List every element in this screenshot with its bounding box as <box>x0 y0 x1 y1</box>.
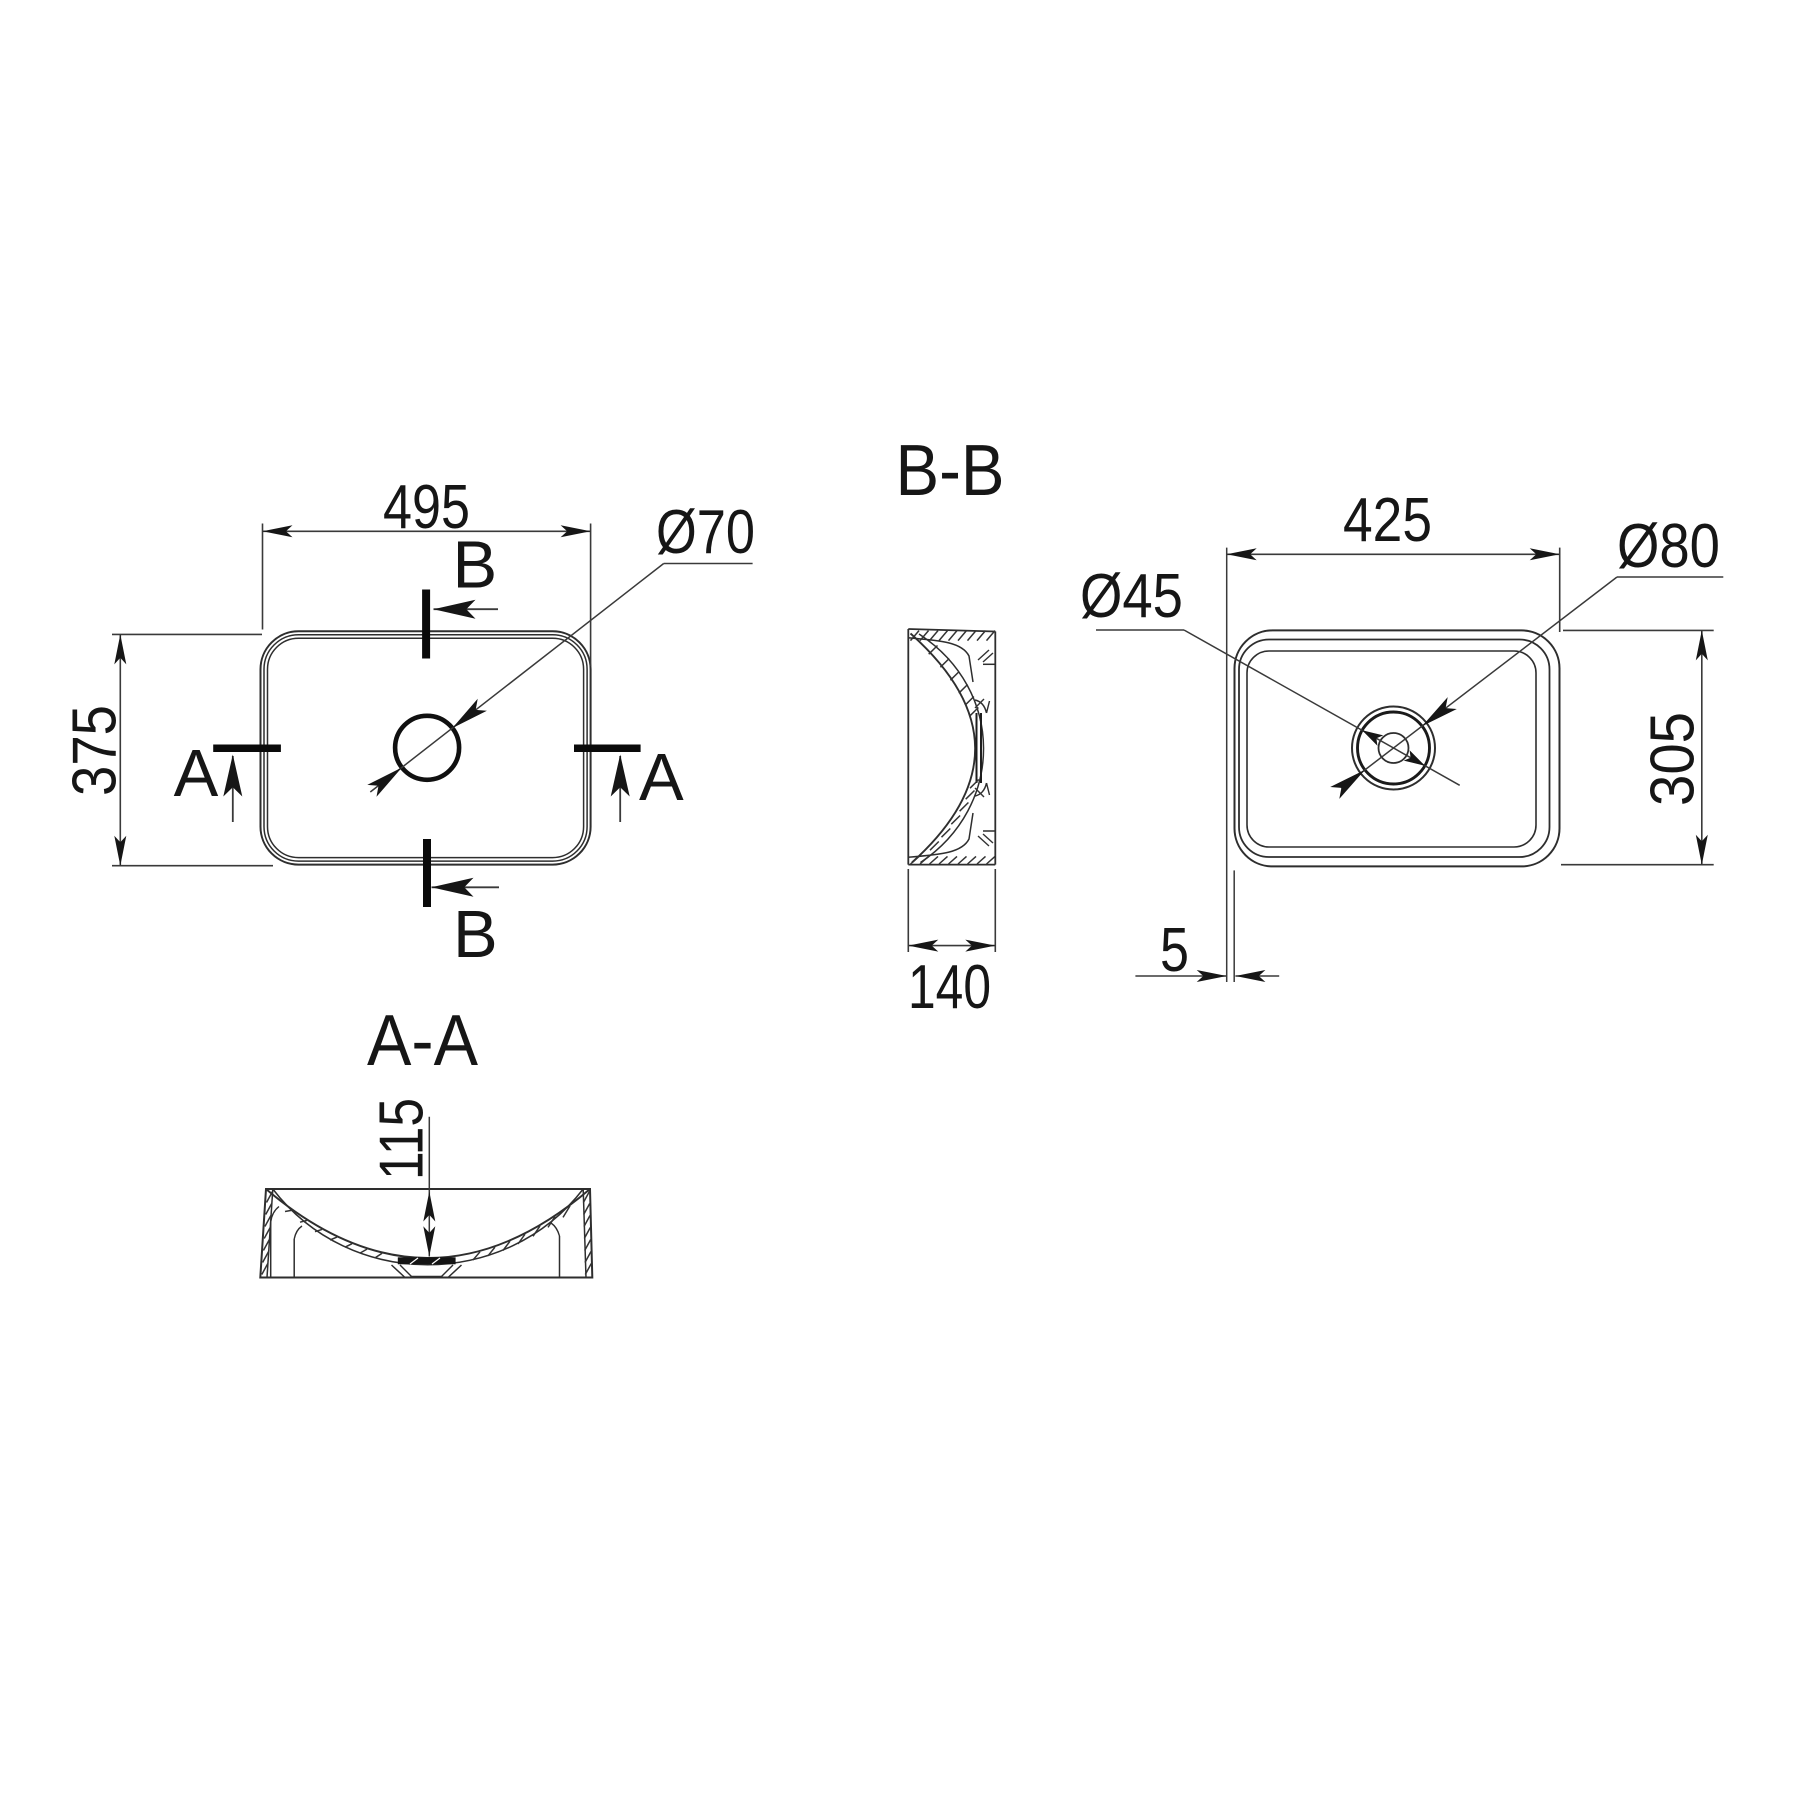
140 dim right extension line <box>994 869 996 952</box>
svg-text:140: 140 <box>908 953 991 1022</box>
5 dim right arrowhead (pointing left) <box>1235 970 1265 982</box>
section B bottom arrowhead <box>432 878 474 897</box>
section B-B drain flange line (lower) <box>983 830 995 832</box>
section A-A left wall inner line <box>267 1189 273 1278</box>
425 dimension line <box>1227 553 1560 555</box>
305 dim bottom arrowhead <box>1696 835 1708 865</box>
section A-A right foot line <box>559 1236 561 1278</box>
section B-B drain flange line (upper) <box>983 663 995 665</box>
svg-text:Ø70: Ø70 <box>656 498 755 567</box>
Ø70 arrowhead lower-left (on circle) <box>367 768 402 797</box>
right view basin inner edge contour <box>1247 651 1536 847</box>
section B-B left outline edge <box>907 629 909 865</box>
section A left arrow shaft <box>232 756 234 822</box>
Ø45 arrowhead upper-left <box>1362 730 1383 746</box>
section B-B drain funnel curve upper <box>975 700 987 713</box>
section A-A hatching: right wall band <box>583 1192 589 1203</box>
section A-A left foot shoulder 1 <box>271 1207 279 1223</box>
495 dim left arrowhead <box>263 525 293 537</box>
section A-A hatching: bowl wall <box>285 1210 292 1211</box>
section A cut line (left) <box>213 745 281 753</box>
section A-A drain plate (dark) <box>398 1257 456 1264</box>
375 dim bottom arrowhead <box>114 836 126 866</box>
5 dim line right part <box>1235 975 1279 977</box>
115 dim upper arrowhead <box>423 1192 435 1222</box>
right view drain small circle Ø45 <box>1379 733 1409 763</box>
svg-text:375: 375 <box>61 705 130 796</box>
section B-B bowl interior curve <box>911 634 976 863</box>
right view outer rim contour <box>1235 630 1560 866</box>
305 dimension line <box>1701 630 1703 864</box>
svg-text:B: B <box>453 528 498 603</box>
right view drain outer circle <box>1352 707 1435 790</box>
Ø80 leader/diameter line <box>1341 577 1617 788</box>
section B-B hatching: bowl wall <box>929 646 938 655</box>
Ø45 leader/diameter line <box>1184 630 1460 785</box>
basin outer rim contour (top view) <box>260 631 590 864</box>
section A-A body outline <box>260 1189 592 1278</box>
section B-B top edge <box>908 629 995 632</box>
425 dim right extension line <box>1559 548 1561 632</box>
right view rim middle contour <box>1239 640 1550 858</box>
5 dim right extension line <box>1233 870 1235 982</box>
section B-B rim inner line (bottom) <box>908 813 973 857</box>
svg-text:A: A <box>639 740 684 815</box>
drain plate slit 1 <box>410 1258 418 1264</box>
right view drain circle Ø80 <box>1358 712 1430 784</box>
140 dim left extension line <box>907 869 909 952</box>
section A-A right wall inner line <box>583 1189 586 1278</box>
375 dimension line <box>119 634 121 865</box>
section A-A drain funnel left outer <box>392 1265 406 1278</box>
Ø80 leader shoulder line <box>1617 576 1723 578</box>
425 dim right arrowhead <box>1530 548 1560 560</box>
svg-text:A: A <box>174 736 219 811</box>
section A-A drain funnel bottom line <box>412 1276 442 1278</box>
section B-B drain wall line lower <box>987 783 990 795</box>
basin rim inner contour (top view) <box>267 638 583 857</box>
svg-text:305: 305 <box>1639 712 1708 806</box>
basin rim middle contour (top view) <box>264 635 587 861</box>
425 dim left arrowhead <box>1227 548 1257 560</box>
Ø80 arrowhead lower-left <box>1330 770 1365 799</box>
section B-B hatching: near drain <box>978 650 989 660</box>
section A-A drain funnel left inner <box>400 1265 412 1277</box>
svg-text:Ø45: Ø45 <box>1080 562 1183 631</box>
section B-B right outline edge <box>994 632 996 865</box>
section B-B drain hole line 2 <box>980 713 982 783</box>
section A right arrow shaft <box>619 756 621 822</box>
svg-text:Ø80: Ø80 <box>1617 512 1720 581</box>
svg-text:5: 5 <box>1160 916 1189 985</box>
305 dim top extension line <box>1563 629 1714 631</box>
140 dimension line <box>908 945 995 947</box>
section B cut line (top) <box>422 590 430 659</box>
425/5 dim shared left extension line <box>1226 548 1228 982</box>
section B bottom arrow shaft <box>432 886 500 888</box>
115 dim extension/dimension line <box>428 1117 430 1257</box>
495 dim left extension line <box>262 524 264 630</box>
svg-text:115: 115 <box>368 1098 437 1180</box>
section A-A left foot line 2 <box>293 1239 295 1278</box>
Ø70 leader/diameter line through drain circle <box>370 564 663 793</box>
section B-B hatching: rim top band <box>911 631 920 641</box>
5 dim left arrowhead (pointing right) <box>1197 970 1227 982</box>
140 dim right arrowhead <box>965 940 995 952</box>
495 dim right extension line <box>590 524 592 667</box>
drain hole circle Ø70 (top view) <box>395 716 459 780</box>
375 dim top arrowhead <box>114 634 126 664</box>
section A-A drain funnel right outer <box>448 1265 462 1278</box>
section B-B drain wall line upper <box>987 701 990 713</box>
Ø80 arrowhead upper-right <box>1422 697 1457 726</box>
section B cut line (bottom) <box>423 839 431 907</box>
section A-A bowl wall under curve <box>273 1189 583 1265</box>
section A-A hatching: left wall band <box>267 1192 273 1203</box>
section B-B hatching: rim bottom band <box>911 856 920 864</box>
375 dim top extension line <box>112 633 262 635</box>
Ø70 leader shoulder line <box>664 563 753 565</box>
section B top arrowhead <box>434 600 476 619</box>
section B-B rim inner line (top) <box>908 638 973 682</box>
svg-text:A-A: A-A <box>367 1001 478 1081</box>
140 dim left arrowhead <box>908 940 938 952</box>
305 dim bottom extension line <box>1561 864 1714 866</box>
section A-A left foot line 1 <box>270 1222 272 1278</box>
svg-text:425: 425 <box>1343 486 1432 555</box>
section B-B bowl wall outer curve <box>919 634 984 863</box>
section A right arrowhead <box>611 755 630 797</box>
section A cut line (right) <box>574 745 641 753</box>
svg-text:B: B <box>453 897 498 972</box>
375 dim bottom extension line <box>112 865 273 867</box>
495 dim right arrowhead <box>561 525 591 537</box>
section B top arrow shaft <box>434 608 499 610</box>
section B-B drain funnel curve lower <box>975 783 987 796</box>
495 dimension line <box>263 530 591 532</box>
115 dim lower arrowhead <box>423 1226 435 1256</box>
section A-A drain funnel right inner <box>442 1265 454 1277</box>
Ø45 leader shoulder line <box>1096 629 1184 631</box>
section B-B bottom edge <box>908 864 995 866</box>
section A-A left foot shoulder 2 <box>294 1226 302 1239</box>
Ø45 arrowhead lower-right <box>1404 750 1425 766</box>
drain plate slit 2 <box>432 1258 440 1264</box>
section A-A bowl interior curve <box>266 1189 590 1258</box>
svg-text:B-B: B-B <box>896 431 1005 511</box>
Ø70 arrowhead upper-right (on circle) <box>452 699 487 728</box>
section B-B drain hole line 1 <box>976 713 978 783</box>
305 dim top arrowhead <box>1696 630 1708 660</box>
section A left arrowhead <box>223 755 242 797</box>
section A-A right foot shoulder <box>551 1223 560 1236</box>
5 dim line left part <box>1135 975 1226 977</box>
